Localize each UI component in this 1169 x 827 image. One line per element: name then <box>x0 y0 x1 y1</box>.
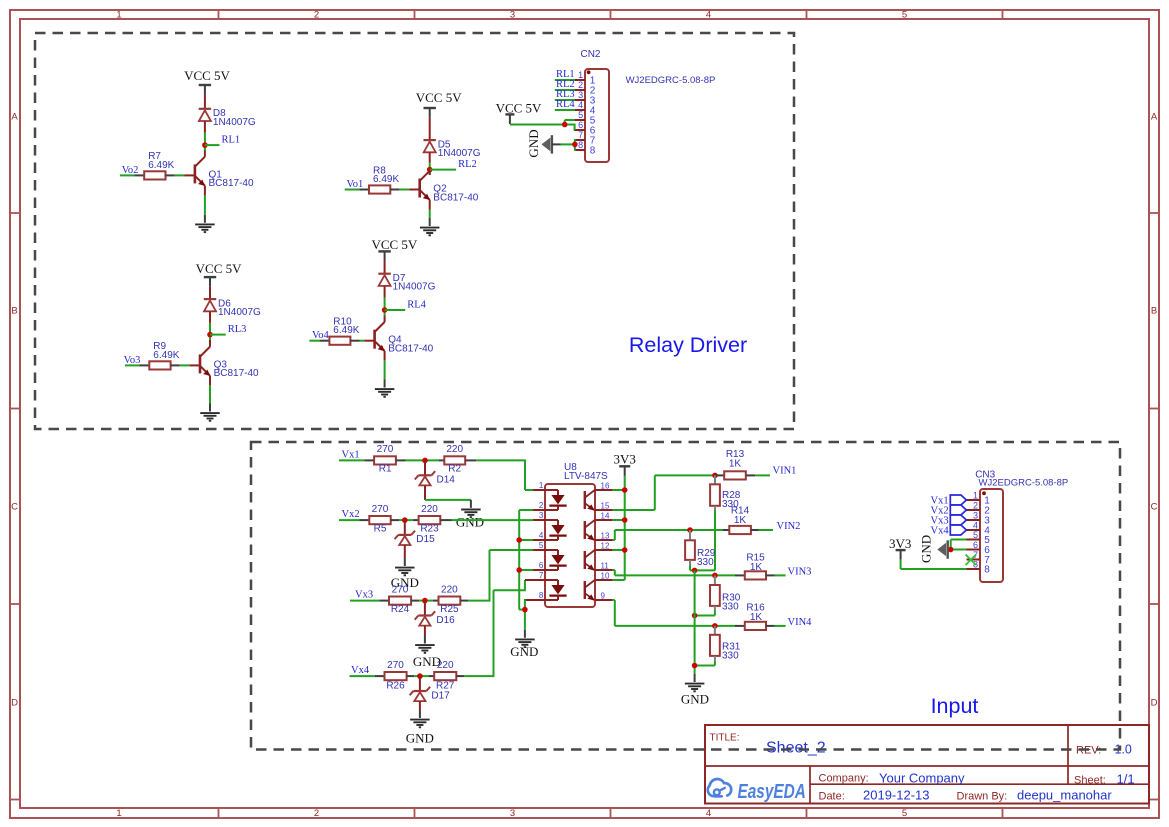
svg-text:6.49K: 6.49K <box>373 174 399 185</box>
U8 right pin stubs <box>595 490 613 600</box>
svg-text:Vx1: Vx1 <box>342 449 360 460</box>
svg-text:BC817-40: BC817-40 <box>214 368 259 379</box>
wire R29 to ground rail <box>690 566 695 571</box>
wire VCC to CN2 pins 5 and 6 <box>510 120 575 130</box>
wire R16 to VIN4 <box>775 625 786 627</box>
ruler row letters left <box>11 112 18 709</box>
svg-text:Vx4: Vx4 <box>931 525 950 536</box>
diode D15 TVS <box>404 520 406 535</box>
svg-text:270: 270 <box>377 444 394 455</box>
ruler row letters right <box>1151 112 1158 709</box>
svg-text:GND: GND <box>456 515 484 530</box>
diode D6 1N4007G <box>204 299 216 311</box>
wire R25 to U8 pin 5 <box>468 550 533 601</box>
svg-text:6.49K: 6.49K <box>333 325 359 336</box>
resistor R25 220 <box>433 597 469 605</box>
svg-text:GND: GND <box>406 731 434 746</box>
wire emitter of Q2 to ground <box>429 200 431 218</box>
svg-text:2: 2 <box>314 808 319 819</box>
svg-text:270: 270 <box>392 584 409 595</box>
svg-text:330: 330 <box>697 557 714 568</box>
ground symbol at CN3 <box>918 535 947 563</box>
svg-text:2: 2 <box>539 501 544 510</box>
svg-text:270: 270 <box>372 504 389 515</box>
node rail pin 6 <box>516 567 522 573</box>
svg-text:Vo4: Vo4 <box>312 330 329 341</box>
svg-text:5: 5 <box>902 10 907 21</box>
svg-text:330: 330 <box>722 650 739 661</box>
node RL2 junction <box>427 167 433 173</box>
wire R27 to U8 pin 7 <box>464 580 526 676</box>
svg-text:LTV-847S: LTV-847S <box>564 471 608 482</box>
svg-text:6.49K: 6.49K <box>153 350 179 361</box>
CN3 outside pin numbers <box>973 490 978 569</box>
ground symbol at CN2 <box>526 129 552 157</box>
svg-text:8: 8 <box>984 564 990 575</box>
wire R23 to U8 pin 3 <box>452 519 534 521</box>
wire 3V3 rail <box>613 476 625 580</box>
svg-text:1: 1 <box>539 481 544 490</box>
svg-text:VIN4: VIN4 <box>788 617 813 628</box>
svg-text:220: 220 <box>441 584 458 595</box>
svg-text:3: 3 <box>973 510 978 520</box>
svg-text:BC817-40: BC817-40 <box>209 178 254 189</box>
node ground junction at CN3 <box>948 547 954 553</box>
transistor Q2 BC817-40 <box>420 171 430 200</box>
wire cathode rail <box>519 510 525 630</box>
svg-text:Sheet:: Sheet: <box>1074 774 1106 786</box>
svg-text:220: 220 <box>437 660 454 671</box>
svg-text:11: 11 <box>601 562 610 571</box>
CN2 pin 1 marker <box>587 70 591 74</box>
connector CN2 body <box>585 69 609 162</box>
wire R1 to R2 <box>406 459 439 461</box>
wire net RL3 to CN2 pin 3 <box>555 99 575 101</box>
diode D14 TVS <box>424 460 426 475</box>
wire D16 anode to ground <box>424 626 426 636</box>
svg-text:BC817-40: BC817-40 <box>388 344 433 355</box>
svg-text:GND: GND <box>918 535 933 563</box>
resistor R1 270 <box>364 456 405 464</box>
svg-text:4: 4 <box>706 808 711 819</box>
U8 right pin numbers <box>601 482 610 601</box>
svg-text:R1: R1 <box>379 464 392 475</box>
resistor R26 270 <box>375 672 414 680</box>
svg-text:10: 10 <box>601 572 610 581</box>
svg-text:VIN2: VIN2 <box>777 521 801 532</box>
svg-text:R25: R25 <box>440 604 459 615</box>
node VIN4 R31 <box>712 623 718 629</box>
wire U8 pin 9 to VIN4 row <box>613 600 735 626</box>
CN2 pin stubs <box>575 80 585 150</box>
wire U8 pin 13 to VIN2 row <box>613 530 723 540</box>
svg-text:3: 3 <box>539 511 544 520</box>
svg-text:B: B <box>11 306 17 317</box>
resistor R7 6.49K <box>134 171 174 179</box>
CN3 pin stubs <box>967 500 981 569</box>
node VIN3 R30 <box>712 573 718 579</box>
transistor Q4 BC817-40 <box>375 322 385 351</box>
svg-text:5: 5 <box>902 808 907 819</box>
wire R14 to VIN2 <box>759 529 774 531</box>
svg-text:3V3: 3V3 <box>889 536 911 551</box>
svg-text:R26: R26 <box>386 681 405 692</box>
EasyEDA logo cloud <box>708 779 731 796</box>
CN3 pin 1 marker <box>982 491 986 495</box>
svg-text:Vx3: Vx3 <box>355 590 373 601</box>
wire net RL1 to CN2 pin 1 <box>555 79 575 81</box>
power VCC 5V for Q2 <box>416 90 462 118</box>
wire Vx4 to R26 <box>350 675 375 677</box>
svg-text:GND: GND <box>681 691 709 706</box>
svg-text:1N4007G: 1N4007G <box>218 307 261 318</box>
node Vx1 junction <box>422 458 428 464</box>
wire R5 to R23 <box>399 519 413 521</box>
svg-text:220: 220 <box>421 504 438 515</box>
wire CN3 pin 6 to ground node <box>951 549 967 551</box>
svg-text:GND: GND <box>526 129 541 157</box>
svg-text:C: C <box>11 502 18 513</box>
svg-text:VCC 5V: VCC 5V <box>184 68 230 83</box>
node Vx2 junction <box>402 517 408 523</box>
resistor R5 270 <box>360 516 400 524</box>
svg-text:1: 1 <box>116 10 121 21</box>
svg-text:4: 4 <box>973 520 978 530</box>
CN3 inside pin names <box>984 495 990 575</box>
svg-text:15: 15 <box>601 502 610 511</box>
resistor R29 330 <box>685 530 695 566</box>
svg-text:6.49K: 6.49K <box>148 160 174 171</box>
resistor R30 330 <box>710 575 720 610</box>
wire U8 pin 4 to rail <box>519 539 533 541</box>
svg-text:3: 3 <box>510 10 515 21</box>
svg-text:5: 5 <box>578 110 583 120</box>
svg-text:3: 3 <box>578 90 583 100</box>
svg-text:A: A <box>11 112 18 123</box>
ruler column numbers top <box>116 10 907 21</box>
svg-text:Vo1: Vo1 <box>347 179 364 190</box>
LED 4 inside U8 <box>545 580 567 600</box>
node rail pin 8 <box>522 607 528 613</box>
Relay Driver section dashed box <box>35 33 794 429</box>
wire VCC to D5 <box>429 118 431 141</box>
svg-text:Vo3: Vo3 <box>124 355 141 366</box>
svg-text:Vx4: Vx4 <box>351 665 370 676</box>
wire VCC to D8 <box>204 95 206 109</box>
svg-text:2: 2 <box>314 10 319 21</box>
svg-text:5: 5 <box>973 530 978 540</box>
resistor R2 220 <box>439 456 477 464</box>
svg-text:RL3: RL3 <box>228 324 247 335</box>
wire U8 pin 11 to VIN3 row <box>613 570 735 575</box>
ground of U8 LEDs <box>510 630 538 659</box>
node ground rail top <box>692 568 698 574</box>
node ground rail R31 <box>692 663 698 669</box>
wire R7 to base <box>175 174 195 176</box>
ground of D15 <box>391 558 419 590</box>
wire U8 pin 2 to cathode rail <box>519 509 533 511</box>
wire stub to RL4 <box>385 309 406 311</box>
wire emitter of Q4 to ground <box>384 351 386 380</box>
svg-text:16: 16 <box>601 482 610 491</box>
net flag Vx1 at CN3 <box>950 495 966 505</box>
wire R26 to R27 <box>414 675 428 677</box>
node ground rail R30 <box>692 613 698 619</box>
wire net RL4 to CN2 pin 4 <box>555 109 575 111</box>
svg-text:13: 13 <box>601 532 610 541</box>
title block outline <box>705 725 1149 804</box>
node RL3 junction <box>207 332 213 338</box>
diode D17 TVS <box>419 676 421 691</box>
wire R30 to ground rail <box>695 611 715 616</box>
svg-text:D15: D15 <box>416 534 435 545</box>
resistor R15 1K <box>735 571 775 579</box>
wire ground to CN2 pins 7 and 8 <box>552 139 575 151</box>
svg-text:VIN1: VIN1 <box>773 465 797 476</box>
Input section dashed box <box>251 442 1120 750</box>
wire CN3 pin 5 to ground node <box>951 540 967 550</box>
phototransistor 3 inside U8 <box>585 550 595 571</box>
CN2 outside pin numbers <box>578 70 583 150</box>
ground of D17 <box>406 710 434 746</box>
resistor R31 330 <box>710 626 720 661</box>
svg-text:Vo2: Vo2 <box>122 165 139 176</box>
svg-text:2: 2 <box>973 500 978 510</box>
svg-text:330: 330 <box>722 601 739 612</box>
resistor R27 220 <box>428 672 464 680</box>
svg-text:4: 4 <box>578 100 583 110</box>
svg-text:2: 2 <box>578 80 583 90</box>
svg-text:3: 3 <box>510 808 515 819</box>
ground of Q2 <box>420 218 440 235</box>
svg-text:TITLE:: TITLE: <box>710 733 740 744</box>
svg-text:deepu_manohar: deepu_manohar <box>1017 788 1112 803</box>
svg-text:D16: D16 <box>436 615 455 626</box>
resistor R16 1K <box>735 622 775 630</box>
svg-text:1/1: 1/1 <box>1117 772 1135 787</box>
node rail pin 12 <box>622 547 628 553</box>
wire U8 pin 15 to VIN1 node <box>613 475 715 510</box>
power VCC 5V for Q3 <box>196 261 242 287</box>
ground of Q4 <box>375 380 395 397</box>
wire R28 to ground rail <box>695 511 715 571</box>
ground of bias network <box>681 674 709 706</box>
svg-text:A: A <box>1151 112 1158 123</box>
power VCC 5V for Q1 <box>184 68 230 95</box>
node ground junction at CN2 <box>572 142 578 148</box>
transistor Q3 BC817-40 <box>200 347 210 376</box>
svg-text:6: 6 <box>578 120 583 130</box>
svg-text:B: B <box>1151 306 1157 317</box>
svg-text:7: 7 <box>578 130 583 140</box>
svg-text:4: 4 <box>539 531 544 540</box>
wire U8 pin 16 to rail <box>613 489 625 491</box>
svg-text:1K: 1K <box>734 515 747 526</box>
CN2 inside pin names <box>590 75 596 156</box>
power VCC 5V for Q4 <box>371 237 417 261</box>
svg-text:1: 1 <box>116 808 121 819</box>
node VIN2 R29 <box>687 527 693 533</box>
wire VCC to D6 <box>209 287 211 299</box>
svg-text:1K: 1K <box>750 562 763 573</box>
svg-text:WJ2EDGRC-5.08-8P: WJ2EDGRC-5.08-8P <box>626 75 716 86</box>
svg-text:1: 1 <box>578 70 583 80</box>
wire R15 to VIN3 <box>775 574 786 576</box>
ground of Q3 <box>200 404 220 421</box>
node Vx3 junction <box>422 598 428 604</box>
svg-text:VCC 5V: VCC 5V <box>371 237 417 252</box>
wire Vo4 to R10 <box>309 340 319 342</box>
svg-text:BC817-40: BC817-40 <box>433 192 478 203</box>
resistor R8 6.49K <box>359 185 399 193</box>
node rail pin 4 <box>516 537 522 543</box>
svg-text:1N4007G: 1N4007G <box>438 148 481 159</box>
LED 3 inside U8 <box>545 550 567 570</box>
node rail pin 14 <box>622 517 628 523</box>
svg-text:Vx2: Vx2 <box>342 509 360 520</box>
wire R8 to base <box>399 189 419 191</box>
svg-text:R23: R23 <box>420 523 439 534</box>
ground of Q1 <box>195 215 215 232</box>
svg-text:Company:: Company: <box>819 772 869 784</box>
svg-text:GND: GND <box>510 644 538 659</box>
svg-text:EasyEDA: EasyEDA <box>738 780 806 803</box>
svg-text:6: 6 <box>539 561 544 570</box>
svg-text:8: 8 <box>578 140 583 150</box>
svg-text:WJ2EDGRC-5.08-8P: WJ2EDGRC-5.08-8P <box>979 477 1069 488</box>
resistor R10 6.49K <box>320 337 360 345</box>
svg-text:Sheet_2: Sheet_2 <box>766 740 826 757</box>
phototransistor 4 inside U8 <box>585 580 595 601</box>
resistor R13 1K <box>715 471 755 479</box>
resistor R28 330 <box>710 475 720 510</box>
svg-text:4: 4 <box>706 10 711 21</box>
optocoupler U8 body <box>545 484 595 607</box>
wire U8 pin 14 to rail <box>613 519 625 521</box>
svg-text:RL4: RL4 <box>407 299 426 310</box>
node RL1 junction <box>202 142 208 148</box>
resistor R9 6.49K <box>140 361 180 369</box>
wire R31 to ground rail <box>695 661 715 666</box>
net flag Vx4 at CN3 <box>950 525 966 535</box>
wire Vx1 to R1 <box>339 459 364 461</box>
transistor Q1 BC817-40 <box>195 157 205 186</box>
svg-text:Drawn By:: Drawn By: <box>957 791 1008 803</box>
ruler column numbers bottom <box>116 808 907 819</box>
svg-text:1N4007G: 1N4007G <box>213 117 256 128</box>
wire stub to RL1 <box>205 144 220 146</box>
svg-text:RL4: RL4 <box>556 99 575 110</box>
connector CN3 body <box>980 489 1003 582</box>
net flag Vx2 at CN3 <box>950 505 966 515</box>
node VIN1 <box>712 473 718 479</box>
node Vx4 junction <box>417 673 423 679</box>
svg-text:220: 220 <box>446 444 463 455</box>
wire ground rail <box>694 570 696 674</box>
LED 1 inside U8 <box>545 490 567 510</box>
U8 left pin stubs <box>525 490 545 600</box>
power VCC 5V at CN2 <box>496 101 542 125</box>
wire U8 pin 6 to rail <box>519 569 533 571</box>
svg-text:7: 7 <box>539 571 544 580</box>
svg-text:D14: D14 <box>437 474 456 485</box>
wire D5 cathode to collector <box>429 152 431 175</box>
wire D6 cathode to collector <box>209 311 211 346</box>
svg-text:1K: 1K <box>729 459 742 470</box>
wire net RL2 to CN2 pin 2 <box>555 89 575 91</box>
wire D8 cathode to collector <box>204 121 206 157</box>
wire VCC to D7 <box>384 261 386 274</box>
wire D7 cathode to collector <box>384 286 386 322</box>
wire D17 anode to ground <box>419 701 421 710</box>
wire U8 pin 12 to rail <box>613 549 625 551</box>
phototransistor 1 inside U8 <box>585 490 595 511</box>
power 3V3 at CN3 <box>889 536 911 560</box>
svg-text:5: 5 <box>539 541 544 550</box>
svg-text:R24: R24 <box>391 604 410 615</box>
svg-text:CN2: CN2 <box>580 49 600 60</box>
diode D16 TVS <box>424 601 426 616</box>
node RL4 junction <box>382 307 388 313</box>
ground of D14 <box>456 500 484 530</box>
wire stub to RL2 <box>430 169 456 171</box>
svg-text:VIN3: VIN3 <box>788 566 812 577</box>
wire R2 to U8 pin 1 <box>476 460 533 490</box>
wire emitter of Q1 to ground <box>204 186 206 215</box>
wire Vo2 to R7 <box>120 174 134 176</box>
wire 3V3 to CN3 pin 8 <box>901 560 967 569</box>
svg-text:1N4007G: 1N4007G <box>393 282 436 293</box>
svg-text:1K: 1K <box>750 612 763 623</box>
LED 2 inside U8 <box>545 520 567 540</box>
node VCC junction at CN2 <box>562 122 568 128</box>
svg-text:D17: D17 <box>431 690 450 701</box>
wire D15 anode to ground <box>404 545 406 558</box>
svg-text:VCC 5V: VCC 5V <box>416 90 462 105</box>
svg-text:14: 14 <box>601 512 610 521</box>
svg-text:3V3: 3V3 <box>614 452 636 467</box>
svg-text:VCC 5V: VCC 5V <box>196 261 242 276</box>
wire stub to RL3 <box>210 334 226 336</box>
U8 left pin numbers <box>539 481 544 600</box>
wire R13 to VIN1 <box>755 474 770 476</box>
resistor R24 270 <box>379 597 419 605</box>
svg-text:R5: R5 <box>374 523 387 534</box>
diode D7 1N4007G <box>378 274 390 286</box>
svg-text:D: D <box>1151 698 1158 709</box>
wire Vx2 to R5 <box>339 519 360 521</box>
wire Vo3 to R9 <box>125 364 140 366</box>
svg-text:2019-12-13: 2019-12-13 <box>863 788 930 803</box>
power 3V3 at U8 <box>614 452 636 476</box>
resistor R14 1K <box>723 526 759 534</box>
svg-text:D: D <box>11 698 18 709</box>
wire D14 anode to ground <box>425 485 471 500</box>
svg-text:RL1: RL1 <box>222 135 241 146</box>
wire Vo1 to R8 <box>345 189 360 191</box>
resistor R23 220 <box>413 516 452 524</box>
svg-text:12: 12 <box>601 542 610 551</box>
svg-text:C: C <box>1151 502 1158 513</box>
svg-text:9: 9 <box>601 592 606 601</box>
wire R24 to R25 <box>419 600 433 602</box>
wire Vx3 to R24 <box>350 600 379 602</box>
node rail pin 16 <box>622 487 628 493</box>
svg-text:8: 8 <box>590 145 596 156</box>
svg-text:RL2: RL2 <box>458 159 477 170</box>
svg-text:Relay Driver: Relay Driver <box>629 333 747 357</box>
svg-text:8: 8 <box>539 591 544 600</box>
